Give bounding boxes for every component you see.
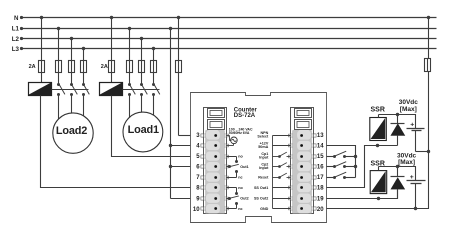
contact K2.1 xyxy=(57,83,60,86)
svg-text:20: 20 xyxy=(317,207,324,213)
svg-text:no: no xyxy=(238,155,243,159)
svg-text:L1: L1 xyxy=(12,25,20,32)
wire: contact to Load2 xyxy=(83,95,85,134)
contact K1.3 xyxy=(152,83,155,86)
wire: L2 bus xyxy=(22,38,437,40)
fuse F2 (L1, Load2 branch) xyxy=(56,61,62,73)
wire: tap from L3 at x=153.5 (Load1 branch) xyxy=(153,49,155,85)
mechanical linkage K1 xyxy=(123,89,160,91)
svg-text:Out1: Out1 xyxy=(240,165,248,169)
fuse F7 (L2, Load1 branch) xyxy=(139,61,145,73)
internal wire row pin 17 xyxy=(273,177,280,179)
svg-text:[Max]: [Max] xyxy=(400,106,417,113)
svg-text:nc: nc xyxy=(238,176,242,180)
internal wire row pin 20 xyxy=(273,208,291,210)
diode D1 (flyback) xyxy=(397,115,399,124)
svg-text:Reset: Reset xyxy=(258,176,269,180)
switch S2 (Cp2 count switch) xyxy=(327,166,335,168)
switch S1 (Cp1 count switch) xyxy=(327,156,335,158)
contactor K2 coil (solid-state contactor, Load2) xyxy=(29,83,52,96)
fuse F6 (L1, Load1 branch) xyxy=(127,61,133,73)
svg-text:2A: 2A xyxy=(101,64,108,70)
contact K2.3 xyxy=(82,83,85,86)
svg-text:10: 10 xyxy=(193,207,200,213)
svg-text:N: N xyxy=(14,15,19,22)
wire: pin 18 (SS Out1) to SSR1 xyxy=(327,146,398,188)
wire: SSR2 top bus xyxy=(378,167,380,171)
svg-text:L3: L3 xyxy=(12,46,20,53)
SSR U2 box xyxy=(370,118,387,141)
svg-text:13: 13 xyxy=(317,133,324,139)
svg-text:19: 19 xyxy=(317,196,324,202)
terminal block J1 (pins 3-10) xyxy=(204,108,227,214)
wire: tap from L1 at x=58.6 (Load2 branch) xyxy=(58,29,60,85)
svg-text:L2: L2 xyxy=(12,36,20,43)
svg-text:14: 14 xyxy=(317,144,324,150)
load M2 (Load2) xyxy=(53,113,93,153)
svg-text:50/60Hz 6VA: 50/60Hz 6VA xyxy=(229,131,250,135)
svg-text:+: + xyxy=(410,121,414,128)
terminal block J2 (pins 13-20) xyxy=(291,108,314,214)
fuse F10 (right return leg) xyxy=(425,59,431,72)
wire: tap from N at x=41.0 (Load2 branch) xyxy=(41,18,43,83)
wire: N tap to pin 3 xyxy=(178,18,180,136)
svg-text:SS Out2: SS Out2 xyxy=(254,197,268,201)
internal wire row pin 16 xyxy=(273,166,280,168)
internal wire row pin 19 xyxy=(273,198,291,200)
SSR U3 box xyxy=(370,171,387,194)
fuse F9 (N to counter supply) xyxy=(176,61,182,73)
wire: contact to Load1 xyxy=(153,95,155,133)
wire: pin 19 (SS Out2) to SSR2 xyxy=(327,190,398,199)
svg-text:nc: nc xyxy=(238,207,242,211)
svg-text:SSR: SSR xyxy=(371,107,385,114)
contactor K1 coil (solid-state contactor, Load1) xyxy=(100,83,123,96)
wire: SSR1 top bus xyxy=(378,115,380,118)
wire: K1 coil to pin 5 xyxy=(112,96,191,157)
wire: L1 tap to pins 4/6/9 xyxy=(170,29,172,199)
svg-text:Input: Input xyxy=(259,166,269,170)
internal wire row pin 18 xyxy=(273,187,291,189)
svg-text:17: 17 xyxy=(317,175,324,181)
wire: pin 14 (+12V) to pushbutton bus xyxy=(327,146,356,178)
internal wire row pin 14 xyxy=(273,145,291,147)
wire: contact to Load1 xyxy=(141,95,143,133)
wire: K2 coil to pin 8 xyxy=(41,96,191,188)
wire: N bus xyxy=(22,17,437,19)
wire: tap from L3 at x=83.0 (Load2 branch) xyxy=(83,49,85,85)
wire: L1 bus xyxy=(22,28,437,30)
svg-text:no: no xyxy=(238,186,243,190)
contact K2.2 xyxy=(70,83,73,86)
internal wire row pin 15 xyxy=(273,156,280,158)
fuse F8 (L3, Load1 branch) xyxy=(151,61,157,73)
svg-text:2A: 2A xyxy=(29,64,36,70)
wire: pin 20 (GND) return bus xyxy=(327,18,429,209)
mechanical linkage K2 xyxy=(52,89,89,91)
diode D2 (flyback) xyxy=(397,167,399,177)
svg-text:[Max]: [Max] xyxy=(398,159,415,166)
svg-text:15: 15 xyxy=(317,154,324,160)
relay contact Out1 (no/common/nc) xyxy=(227,156,237,158)
AC source symbol (supply input pins 3-4) xyxy=(227,135,230,137)
wire: L3 bus xyxy=(22,48,437,50)
svg-text:DS-72A: DS-72A xyxy=(234,113,256,119)
battery BT1 30Vdc xyxy=(407,128,425,130)
contact K1.2 xyxy=(140,83,143,86)
wire: contact to Load2 xyxy=(58,95,60,134)
svg-text:SS Out1: SS Out1 xyxy=(254,186,268,190)
wire: tap from L2 at x=141.0 (Load1 branch) xyxy=(141,39,143,85)
fuse F5 2A (N, Load1 branch) xyxy=(109,61,115,73)
wire: branch to pin 6 xyxy=(171,166,191,168)
wire: contact to Load1 xyxy=(129,95,131,133)
svg-text:Load1: Load1 xyxy=(128,124,159,136)
svg-text:Out2: Out2 xyxy=(240,197,248,201)
svg-text:18: 18 xyxy=(317,186,324,192)
svg-text:Select: Select xyxy=(257,135,269,139)
fuse F1 2A (N, Load2 branch) xyxy=(39,61,45,73)
switch S3 (Reset switch) xyxy=(327,177,335,179)
internal wire row pin 13 xyxy=(273,135,291,137)
svg-text:50mA: 50mA xyxy=(258,145,268,149)
svg-text:GND: GND xyxy=(260,207,269,211)
wire: tap from L1 at x=129.0 (Load1 branch) xyxy=(129,29,131,85)
wire: tap from N at x=111.4 (Load1 branch) xyxy=(111,18,113,83)
wire: tap from L2 at x=71.0 (Load2 branch) xyxy=(71,39,73,85)
fuse F3 (L2, Load2 branch) xyxy=(69,61,75,73)
svg-text:+: + xyxy=(410,174,414,181)
load M1 (Load1) xyxy=(123,112,163,152)
internal bus vertical xyxy=(272,136,274,209)
battery BT2 30Vdc xyxy=(407,180,426,182)
relay contact Out2 (no/common/nc) xyxy=(227,187,237,189)
svg-text:Load2: Load2 xyxy=(56,125,87,137)
op-amp U1 - counter DS-72A outline xyxy=(191,93,327,223)
fuse F4 (L3, Load2 branch) xyxy=(81,61,87,73)
svg-text:Input: Input xyxy=(259,156,269,160)
wire: contact to Load2 xyxy=(71,95,73,134)
contact K1.1 xyxy=(128,83,131,86)
svg-text:16: 16 xyxy=(317,165,324,171)
wire: branch to pin 4 xyxy=(171,145,191,147)
